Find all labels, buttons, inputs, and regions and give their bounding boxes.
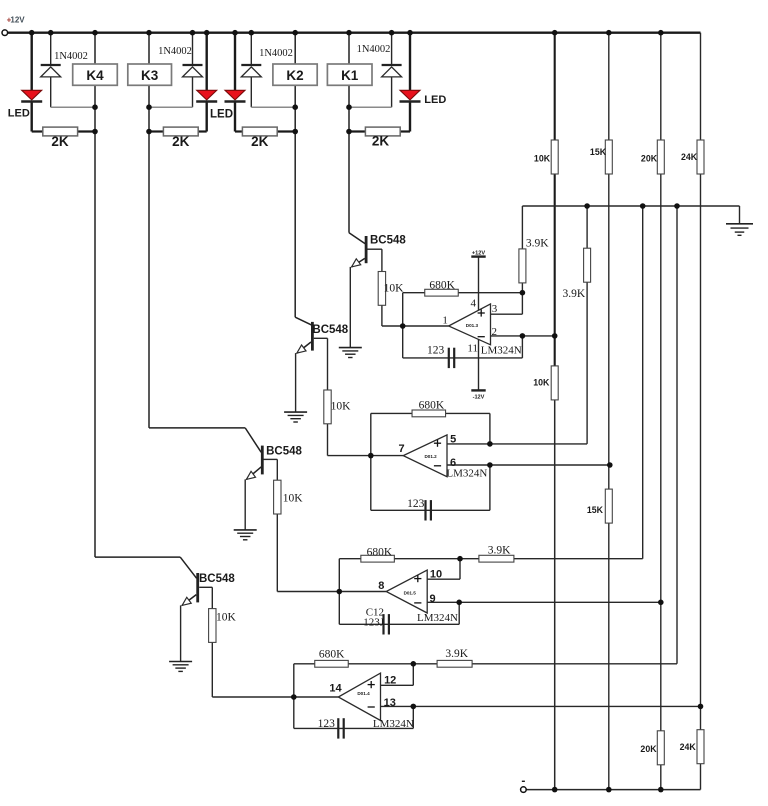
svg-text:LED: LED [210, 109, 233, 121]
svg-text:14: 14 [329, 683, 342, 695]
svg-text:123: 123 [318, 718, 336, 730]
svg-text:LM324N: LM324N [481, 345, 522, 357]
svg-text:680K: 680K [367, 547, 393, 559]
svg-text:4: 4 [470, 298, 476, 310]
svg-text:24K: 24K [681, 152, 698, 162]
svg-text:8: 8 [378, 580, 384, 592]
svg-text:1N4002: 1N4002 [54, 51, 88, 62]
svg-text:123J: 123J [363, 616, 385, 628]
svg-text:7: 7 [398, 443, 404, 455]
svg-text:24K: 24K [680, 742, 697, 752]
svg-text:13: 13 [384, 697, 396, 709]
svg-text:K1: K1 [341, 68, 359, 83]
svg-text:9: 9 [429, 593, 435, 605]
svg-text:20K: 20K [641, 153, 658, 163]
svg-text:2: 2 [491, 326, 497, 338]
svg-text:680K: 680K [419, 400, 445, 412]
svg-text:3.9K: 3.9K [488, 544, 511, 556]
svg-text:10K: 10K [534, 153, 551, 163]
svg-text:LED: LED [424, 94, 446, 106]
svg-text:K3: K3 [141, 68, 159, 83]
svg-text:1N4002: 1N4002 [158, 46, 192, 57]
svg-text:10: 10 [430, 569, 442, 581]
svg-text:123: 123 [427, 345, 445, 357]
svg-text:5: 5 [450, 433, 456, 445]
svg-text:LM324N: LM324N [446, 467, 487, 479]
svg-text:15K: 15K [590, 147, 607, 157]
svg-text:3.9K: 3.9K [445, 648, 468, 660]
svg-text:123: 123 [407, 498, 425, 510]
svg-text:10K: 10K [331, 401, 352, 413]
svg-text:BC548: BC548 [370, 234, 406, 246]
svg-text:10K: 10K [283, 492, 304, 504]
svg-text:12V: 12V [10, 16, 25, 25]
svg-text:1: 1 [442, 315, 448, 327]
svg-text:+12V: +12V [472, 250, 485, 256]
svg-text:D01.3: D01.3 [466, 323, 479, 328]
svg-text:3.9K: 3.9K [526, 238, 549, 250]
svg-text:10K: 10K [216, 612, 237, 624]
svg-text:D01.5: D01.5 [404, 590, 417, 595]
svg-text:BC548: BC548 [312, 324, 348, 336]
svg-text:3.9K: 3.9K [562, 288, 585, 300]
svg-text:2K: 2K [372, 134, 390, 149]
svg-text:LED: LED [8, 107, 30, 119]
svg-text:2K: 2K [172, 134, 190, 149]
svg-text:680K: 680K [319, 649, 345, 661]
svg-text:-: - [521, 774, 525, 788]
svg-text:10K: 10K [384, 282, 405, 294]
svg-text:1N4002: 1N4002 [259, 48, 293, 59]
svg-text:-12V: -12V [473, 395, 485, 401]
svg-text:10K: 10K [533, 377, 550, 387]
svg-text:20K: 20K [640, 744, 657, 754]
svg-text:1N4002: 1N4002 [357, 44, 391, 55]
svg-text:K2: K2 [286, 68, 303, 83]
svg-text:3: 3 [492, 303, 498, 315]
svg-text:K4: K4 [86, 68, 104, 83]
svg-text:11: 11 [467, 342, 478, 354]
svg-text:BC548: BC548 [199, 573, 235, 585]
svg-text:D01.4: D01.4 [357, 691, 370, 696]
svg-text:2K: 2K [251, 134, 269, 149]
svg-text:BC548: BC548 [266, 446, 302, 458]
svg-text:6: 6 [450, 457, 456, 469]
svg-text:12: 12 [384, 675, 396, 687]
svg-text:D01.2: D01.2 [424, 454, 437, 459]
svg-text:15K: 15K [587, 505, 604, 515]
svg-text:LM324N: LM324N [373, 718, 414, 730]
svg-text:680K: 680K [429, 280, 455, 292]
svg-text:2K: 2K [51, 134, 69, 149]
svg-text:LM324N: LM324N [417, 612, 458, 624]
